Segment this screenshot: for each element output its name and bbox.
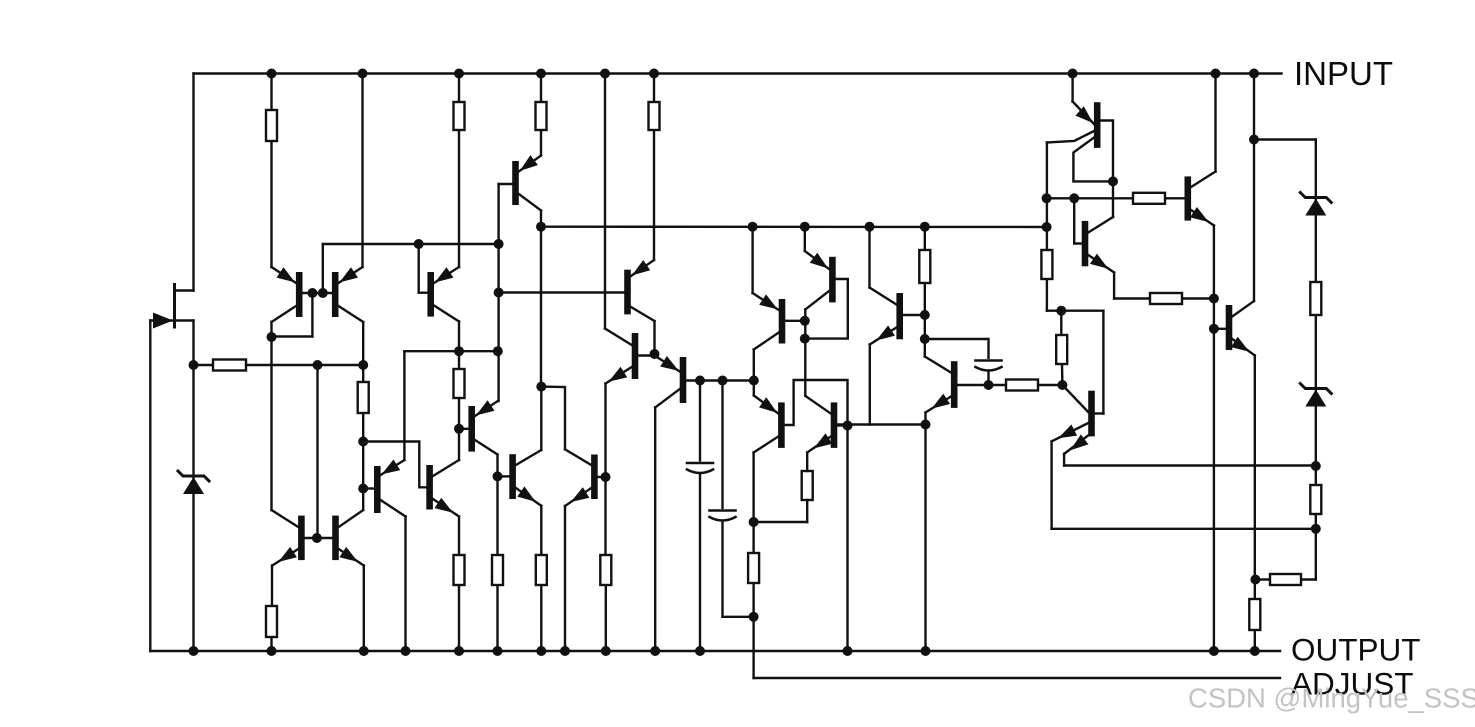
transistor Q18 (NPN) bbox=[805, 396, 847, 522]
wire x317 to lower pair bases bbox=[316, 365, 318, 538]
zener diode D2 bbox=[1300, 193, 1331, 216]
junction output rail x541 bbox=[536, 646, 546, 656]
watermark text bbox=[1188, 683, 1475, 714]
wire capacitor C2 column bbox=[723, 381, 754, 617]
junction (316,538) bbox=[312, 533, 322, 543]
transistor Q13 (NPN) bbox=[509, 450, 541, 506]
wire R15 to Q20 collector bbox=[924, 283, 926, 357]
junction output rail x405 bbox=[401, 646, 411, 656]
wire ADJUST rail bbox=[754, 677, 1280, 679]
node label OUTPUT bbox=[1291, 632, 1421, 668]
wire node y339 to C3 bbox=[925, 339, 989, 361]
junction output rail x847 bbox=[843, 646, 853, 656]
wire R16 to loop bbox=[1046, 279, 1048, 311]
wire y227 bus bbox=[541, 225, 1047, 228]
junction (924,226) bbox=[920, 222, 930, 232]
wire Q14 emitter to rail bbox=[564, 506, 566, 651]
junction (654,354) bbox=[650, 349, 660, 359]
wire R13 to adjust node bbox=[752, 583, 754, 617]
capacitor C1 bbox=[685, 462, 715, 474]
zener diode D1 bbox=[178, 471, 209, 494]
transistor Q7 (PNP) bbox=[624, 260, 654, 321]
junction (924,315) bbox=[920, 310, 930, 320]
wire node y365 row bbox=[194, 364, 364, 366]
transistor Q10 (PNP) bbox=[655, 356, 687, 408]
resistor R15 bbox=[919, 250, 930, 283]
wire Q13 emitter to R11 bbox=[540, 506, 542, 555]
wire HR3 to Q24 base bbox=[1165, 197, 1185, 199]
wire Q13 collector riser bbox=[540, 387, 542, 450]
transistor Q23 (NPN) bbox=[1074, 198, 1114, 272]
wire x1254 rail drop bbox=[1253, 74, 1255, 302]
wire bus drop to Q15 emitter bbox=[751, 227, 753, 293]
junction (1255,579) bbox=[1250, 575, 1260, 585]
junction (497,351) bbox=[493, 346, 503, 356]
wire base node to R17h bbox=[989, 384, 1007, 386]
junction (541,386) bbox=[536, 382, 546, 392]
junction (1046,198) bbox=[1042, 193, 1052, 203]
wire R2 to Q3 emitter bbox=[458, 130, 460, 267]
JFET J1 bbox=[150, 285, 193, 329]
resistor R11 bbox=[536, 555, 547, 585]
resistor R8 bbox=[266, 606, 277, 637]
junction (1315,528) bbox=[1311, 524, 1321, 534]
wire HR4 to node x1214 bbox=[1182, 297, 1214, 299]
resistor R18 bbox=[1056, 335, 1067, 364]
junction output rail x271 bbox=[267, 646, 277, 656]
resistor R3 bbox=[536, 102, 547, 130]
transistor Q6 (NPN, lower mirror right) bbox=[332, 510, 364, 566]
wire Q25 emitter column bbox=[1254, 356, 1256, 580]
resistor R17 (horizontal) bbox=[1006, 380, 1038, 391]
wire bus drop to Q19 collector bbox=[868, 227, 870, 288]
junction (753,616) bbox=[749, 612, 759, 622]
wire x459 rail to R2 bbox=[458, 74, 460, 103]
wire Q9 emitter column bbox=[604, 384, 606, 556]
junction output rail x1254 bbox=[1250, 646, 1260, 656]
junction (193,365) bbox=[189, 360, 199, 370]
junction output rail x193 bbox=[189, 646, 199, 656]
resistor R20 (horizontal) bbox=[1150, 293, 1182, 304]
wire y298 row to HR4 bbox=[1114, 297, 1150, 299]
wire Q21 emitter2 to D-chain bbox=[1064, 454, 1316, 466]
junction (925,424) bbox=[921, 420, 931, 430]
wire mirror bases to y244 row bbox=[323, 244, 499, 293]
resistor R16 bbox=[1041, 250, 1052, 279]
junction (1061,310) bbox=[1056, 306, 1066, 316]
junction (322,293) bbox=[318, 288, 328, 298]
junction (605,477) bbox=[601, 472, 611, 482]
wire Q1 base-collector tie bbox=[272, 293, 313, 337]
wire x404 drop to Q11 emitter bbox=[403, 351, 405, 460]
junction (271,337) bbox=[267, 332, 277, 342]
transistor Q17 (PNP) bbox=[805, 251, 848, 339]
svg-text:CSDN @MingYue_SSS: CSDN @MingYue_SSS bbox=[1188, 683, 1475, 714]
junction top rail x1215 bbox=[1211, 69, 1221, 79]
wire Q7 collector drop bbox=[653, 321, 655, 354]
wire Q20 emitter to rail bbox=[924, 413, 926, 652]
wire R10 to rail bbox=[496, 585, 498, 651]
junction (459,351) bbox=[454, 346, 464, 356]
junction top rail x605 bbox=[600, 69, 610, 79]
wire y198 row bbox=[1047, 197, 1133, 199]
junction (988,385) bbox=[984, 380, 994, 390]
junction (1213,298) bbox=[1209, 294, 1219, 304]
wire node y387 to Q14 collector bbox=[541, 387, 565, 450]
wire R9 to rail bbox=[458, 585, 460, 651]
wire Q21 collector loop top bbox=[1047, 311, 1104, 414]
junction output rail x605 bbox=[601, 646, 611, 656]
node label ADJUST bbox=[1291, 666, 1414, 702]
wire Q16 collector drop bbox=[752, 453, 754, 523]
wire Q2 collector column through R5 bbox=[362, 322, 364, 510]
wire bottom OUTPUT rail bbox=[150, 650, 1280, 652]
transistor Q11 (PNP) bbox=[363, 460, 405, 517]
junction output rail x459 bbox=[454, 646, 464, 656]
junction (1062,385) bbox=[1057, 380, 1067, 390]
transistor Q20 (NPN) bbox=[925, 357, 989, 413]
wire x1072 rail to Q22 emitter bbox=[1071, 74, 1073, 102]
junction output rail x655 bbox=[650, 646, 660, 656]
wire Q1 collector column bbox=[270, 322, 272, 510]
wire capacitor C1 column bbox=[699, 381, 701, 652]
resistor R24 bbox=[1249, 599, 1260, 630]
resistor R10 bbox=[492, 555, 503, 585]
wire R18v to base node bbox=[1061, 364, 1064, 385]
transistor Q15 (PNP) bbox=[753, 293, 805, 350]
transistor Q4 (PNP) bbox=[499, 155, 541, 210]
wire top INPUT rail bbox=[194, 72, 1282, 74]
transistor Q8 (NPN) bbox=[426, 460, 459, 517]
wire x541 rail to R3 bbox=[540, 74, 542, 103]
transistor Q9 (NPN) bbox=[605, 329, 655, 384]
capacitor C2 bbox=[708, 509, 738, 521]
wire x1214 column to rail bbox=[1213, 226, 1215, 652]
wire R12 to rail bbox=[605, 585, 607, 651]
wire bus to R15 bbox=[924, 227, 926, 250]
wire Q8 base path bbox=[363, 442, 426, 488]
transistor Q19 (NPN) bbox=[870, 288, 925, 345]
junction (541,226) bbox=[536, 222, 546, 232]
resistor R4 bbox=[649, 102, 660, 130]
transistor Q16 (PNP) bbox=[754, 380, 848, 453]
wire JFET source column through D1 to rail bbox=[192, 321, 194, 652]
junction (363,441) bbox=[358, 437, 368, 447]
wire node y522 to R13 bbox=[752, 522, 754, 553]
wire Q19 emitter leg bbox=[869, 345, 871, 425]
wire ADJUST drop through output rail bbox=[752, 617, 754, 678]
wire Q3 collector to node y351 bbox=[458, 322, 460, 370]
wire Q15 collector drop bbox=[753, 350, 755, 381]
wire x1215 rail drop bbox=[1214, 74, 1216, 172]
svg-text:INPUT: INPUT bbox=[1294, 55, 1393, 92]
junction (700,380) bbox=[695, 376, 705, 386]
wire Q10 base row y380 bbox=[686, 379, 754, 381]
resistor R12 bbox=[600, 555, 611, 585]
junction (804,226) bbox=[800, 222, 810, 232]
wire x847 to rail bbox=[846, 425, 848, 652]
junction (1254,139) bbox=[1249, 135, 1259, 145]
transistor Q21 (NPN output, double emitter) bbox=[1052, 385, 1104, 454]
resistor R5 bbox=[358, 382, 369, 413]
resistor R2 bbox=[454, 102, 465, 130]
wire Q22 loop to Q23 collector bbox=[1112, 181, 1114, 217]
wire bus drop to Q17 emitter bbox=[804, 227, 806, 251]
junction (722,380) bbox=[718, 376, 728, 386]
wire R11 to rail bbox=[540, 585, 542, 651]
wire Q7 base row y292 bbox=[499, 291, 625, 293]
junction output rail x565 bbox=[560, 646, 570, 656]
wire left edge drop to JFET drain bbox=[192, 74, 194, 291]
junction (753,380) bbox=[749, 376, 759, 386]
resistor R22 bbox=[1310, 485, 1321, 514]
transistor Q24 (NPN) bbox=[1185, 172, 1216, 226]
junction (752,226) bbox=[748, 222, 758, 232]
wire node y522 row bbox=[754, 521, 808, 523]
junction (804,320) bbox=[800, 316, 810, 326]
junction top rail x1254 bbox=[1249, 69, 1259, 79]
wire x605 rail drop to Q9 collector bbox=[604, 74, 606, 329]
zener diode D3 bbox=[1300, 384, 1331, 407]
wire node y351 row bbox=[404, 350, 497, 352]
junction top rail x459 bbox=[454, 69, 464, 79]
wire node to R20 bbox=[1254, 580, 1256, 600]
resistor R19 (horizontal) bbox=[1133, 193, 1165, 204]
junction (363,365) bbox=[358, 360, 368, 370]
junction (1074,198) bbox=[1069, 193, 1079, 203]
resistor R21 bbox=[1310, 282, 1321, 315]
wire Q12 collector drop bbox=[496, 455, 498, 556]
junction top rail x362 bbox=[358, 69, 368, 79]
junction (847,425) bbox=[843, 421, 853, 431]
wire Q13 base stub row bbox=[498, 475, 510, 477]
junction (497,476) bbox=[493, 471, 503, 481]
wire diode chain spine bbox=[1315, 140, 1317, 580]
wire R17h to Q21 base node bbox=[1038, 384, 1062, 386]
transistor Q2 (PNP, right of input mirror) bbox=[332, 267, 363, 322]
junction output rail x497 bbox=[493, 646, 503, 656]
junction (1315,466) bbox=[1311, 461, 1321, 471]
wire Q8 emitter to R9 bbox=[458, 517, 460, 556]
wire Q21 emitter1 to D-chain bbox=[1052, 441, 1316, 528]
junction output rail x363 bbox=[359, 646, 369, 656]
wire JFET gate column to rail bbox=[149, 321, 151, 652]
wire Q4 collector to bus bbox=[540, 211, 542, 227]
transistor Q22 (PNP, diode-connected) bbox=[1047, 102, 1113, 182]
transistor Q25 (NPN) bbox=[1226, 301, 1255, 356]
resistor R6 bbox=[454, 369, 465, 398]
wire Q10 collector to rail bbox=[654, 408, 656, 652]
junction (418,244) bbox=[414, 239, 424, 249]
junction (1213,328) bbox=[1209, 324, 1219, 334]
junction (869,226) bbox=[865, 222, 875, 232]
wire node y380 to Q16 emitter bbox=[753, 381, 755, 396]
junction (459,428) bbox=[454, 424, 464, 434]
junction (317,365) bbox=[313, 360, 323, 370]
wire emitter row y424 bbox=[837, 423, 925, 425]
resistor R23 (horizontal) bbox=[1270, 574, 1301, 585]
node label INPUT bbox=[1294, 55, 1393, 92]
junction top rail x271 bbox=[267, 69, 277, 79]
resistor R9 bbox=[454, 555, 465, 585]
wire x1047 column bbox=[1046, 143, 1048, 251]
wire node y139 to diode chain bbox=[1254, 138, 1316, 140]
wire Q17 collector x805 column bbox=[804, 310, 806, 396]
svg-text:OUTPUT: OUTPUT bbox=[1291, 632, 1421, 668]
transistor Q12 (PNP) bbox=[459, 400, 498, 454]
junction (1113,181) bbox=[1108, 176, 1118, 186]
capacitor C3 bbox=[974, 359, 1004, 371]
wire Q25 base stub bbox=[1214, 328, 1226, 330]
wire chain elbow to HR5 bbox=[1301, 578, 1316, 580]
wire x271 rail to R1 bbox=[270, 74, 272, 111]
resistor R1 bbox=[266, 110, 277, 141]
junction (363,488) bbox=[358, 484, 368, 494]
junction output rail x925 bbox=[921, 646, 931, 656]
junction output rail x700 bbox=[695, 646, 705, 656]
junction (312,293) bbox=[307, 288, 317, 298]
wire C3 to base node bbox=[987, 369, 989, 385]
wire Q5 emitter leg to R8 bbox=[270, 566, 273, 652]
wire x362 rail to Q2 emitter bbox=[361, 74, 363, 268]
wire Q11 collector to rail bbox=[404, 517, 406, 652]
junction (498,292) bbox=[494, 288, 504, 298]
junction top rail x654 bbox=[649, 69, 659, 79]
junction (804,338) bbox=[800, 334, 810, 344]
wire R3 to Q4 emitter bbox=[540, 130, 542, 156]
transistor Q14 (NPN) bbox=[565, 449, 606, 506]
transistor Q5 (NPN, lower mirror left) bbox=[272, 510, 333, 566]
resistor R13 bbox=[748, 553, 759, 583]
transistor Q3 (PNP) bbox=[427, 267, 459, 322]
wire Q23 emitter drop bbox=[1113, 273, 1115, 299]
wire R20 to rail bbox=[1254, 630, 1256, 651]
resistor R7 (horizontal) bbox=[213, 360, 246, 371]
junction (753,522) bbox=[749, 517, 759, 527]
wire x654 rail to R4 bbox=[653, 74, 655, 103]
wire Q6 emitter leg to rail bbox=[363, 566, 365, 652]
wire x498 column bbox=[497, 184, 499, 401]
junction top rail x1072 bbox=[1068, 69, 1078, 79]
wire x541 bus drop to node y387 bbox=[540, 227, 542, 387]
wire loop to R18v bbox=[1060, 311, 1062, 335]
wire R6 to Q8 collector bbox=[458, 398, 460, 460]
resistor R14 bbox=[802, 471, 813, 500]
junction (1046,227) bbox=[1042, 222, 1052, 232]
junction top rail x541 bbox=[536, 69, 546, 79]
wire R1 to Q1 emitter bbox=[270, 141, 272, 267]
wire Q3 base riser bbox=[419, 244, 428, 293]
junction output rail x1213 bbox=[1209, 646, 1219, 656]
junction (498,244) bbox=[494, 239, 504, 249]
junction (924,339) bbox=[920, 334, 930, 344]
wire R4 to Q7 emitter bbox=[653, 130, 655, 260]
wire HR5 to emitter node bbox=[1255, 578, 1270, 580]
transistor Q1 (PNP, left of input mirror) bbox=[272, 267, 333, 322]
